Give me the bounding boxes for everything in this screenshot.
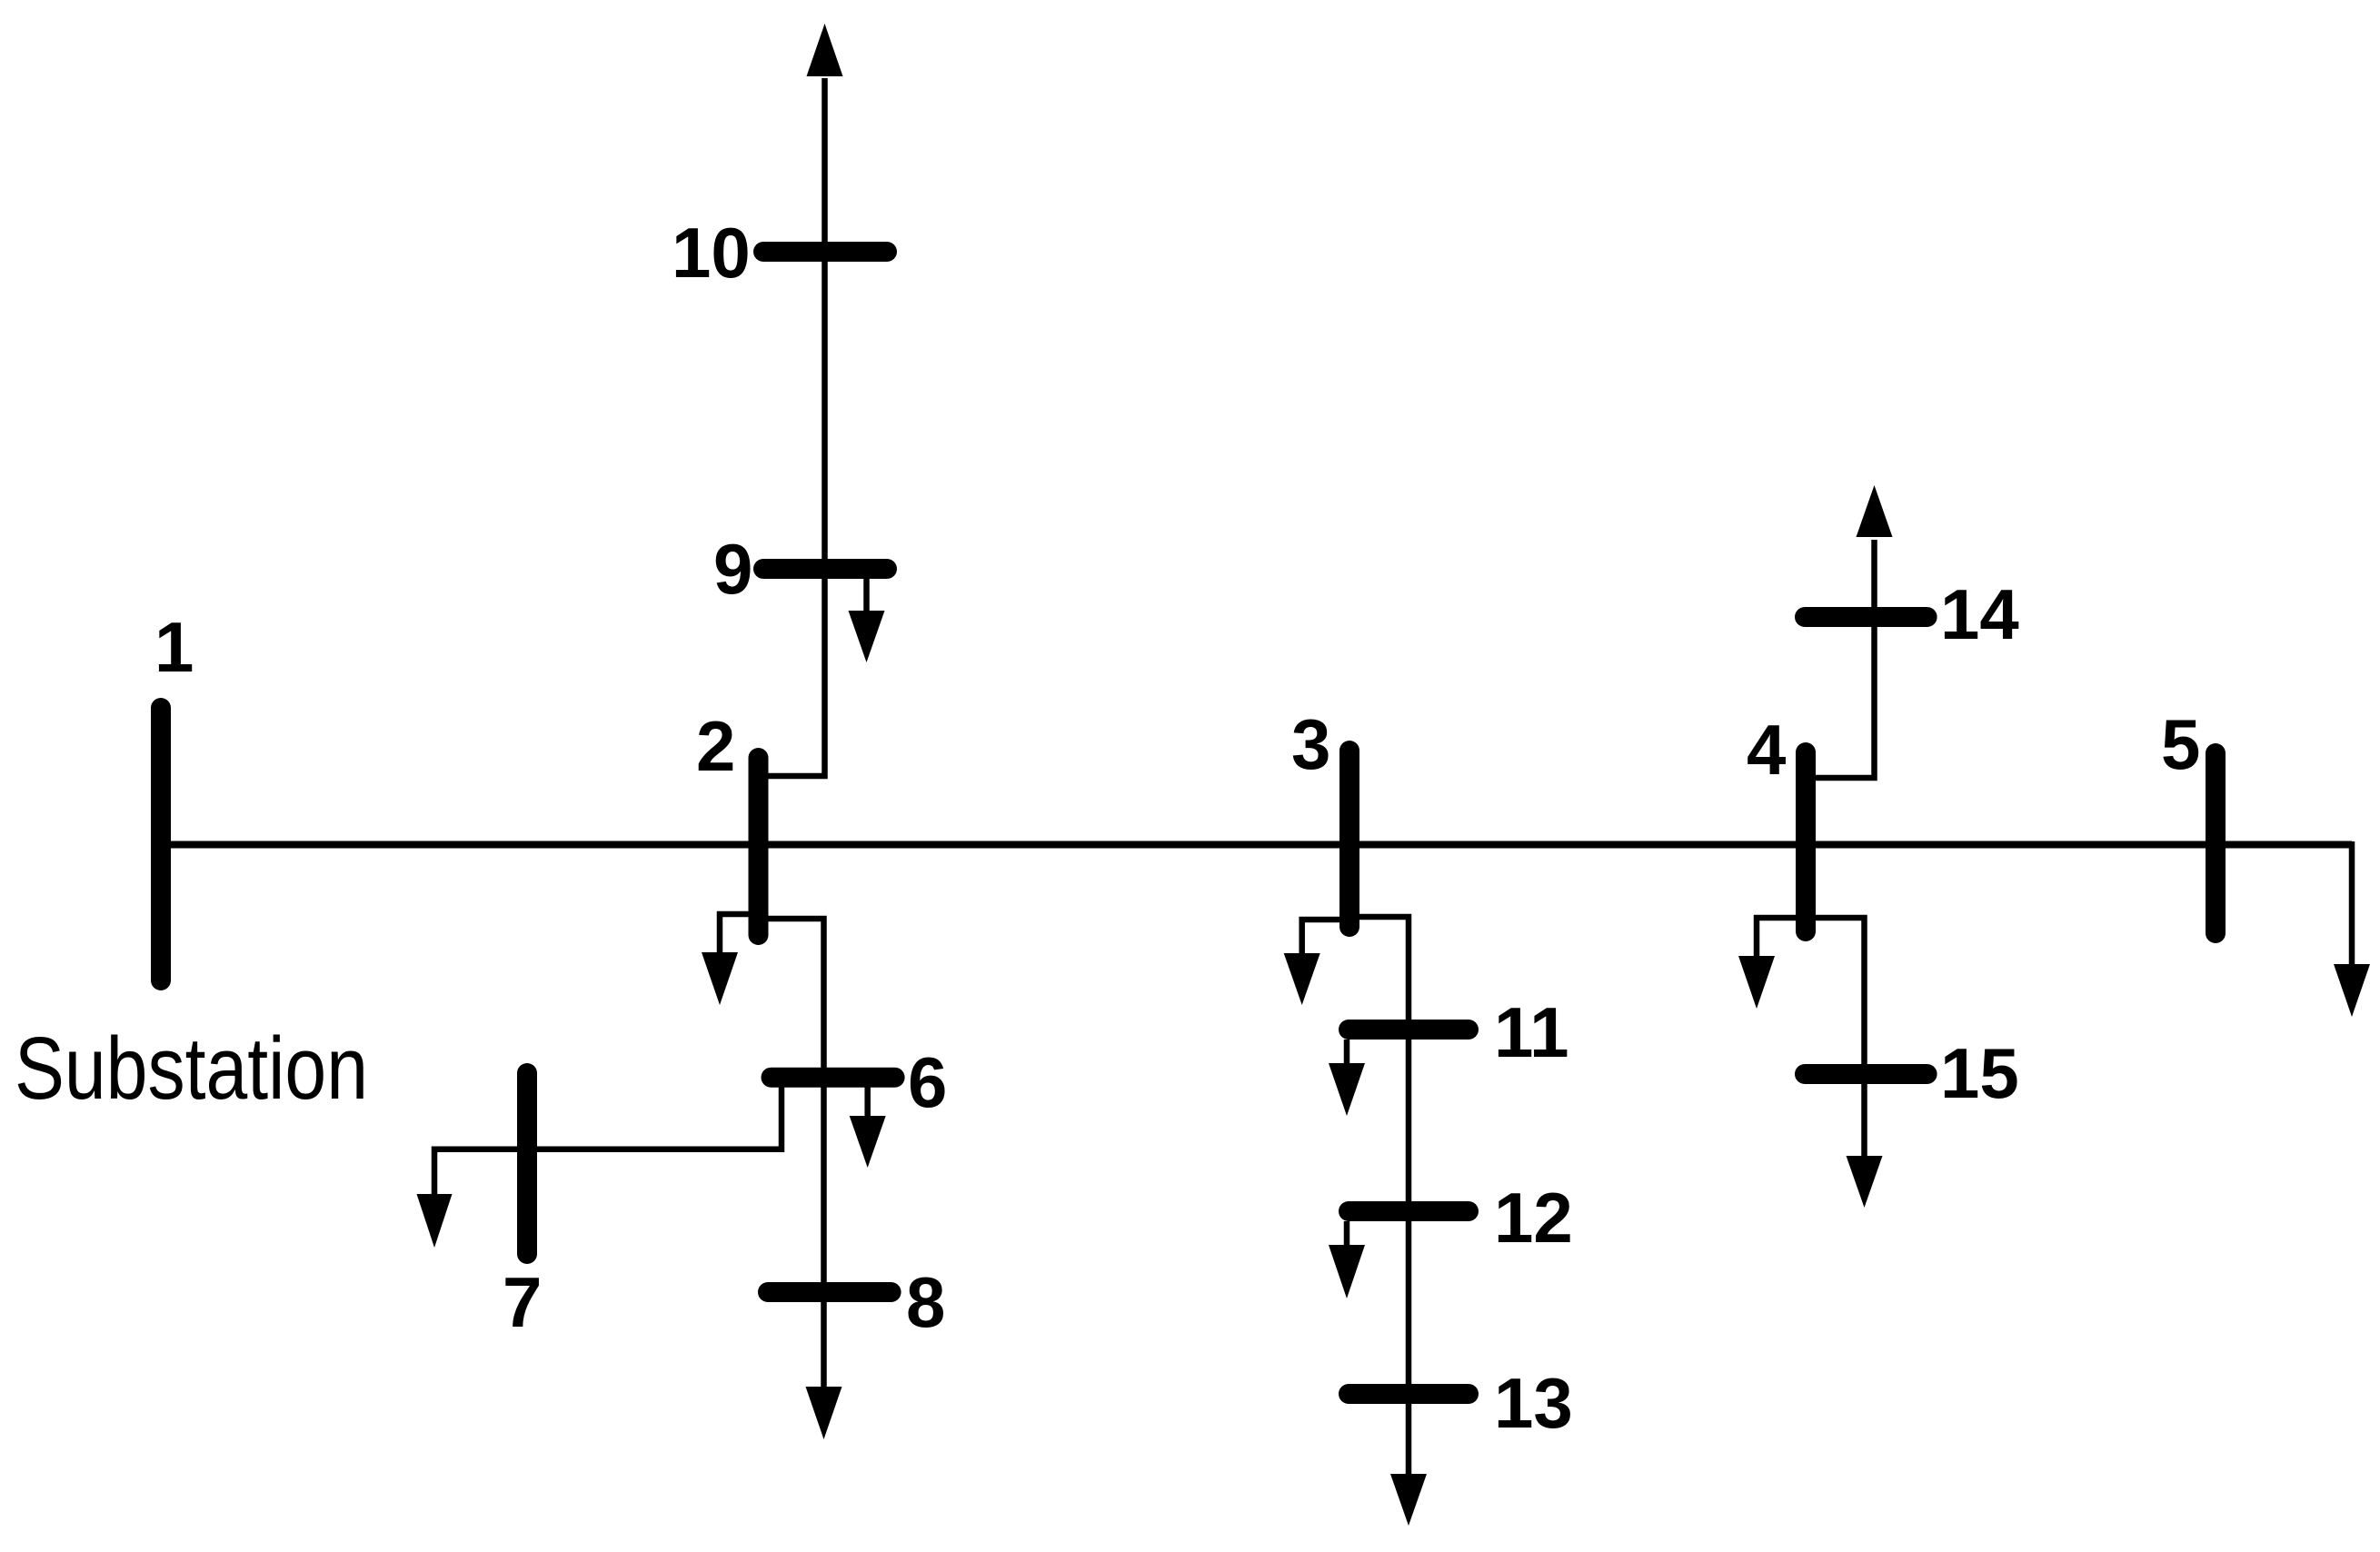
load arrow bus 11 [1329, 1063, 1365, 1116]
wire bus 4 down to bus 15 and load [1816, 918, 1865, 1159]
bus 3 [1339, 751, 1359, 927]
bus 1 (Substation) [151, 708, 171, 980]
svg-text:Substation: Substation [15, 1019, 368, 1118]
bus 15 [1805, 1064, 1927, 1084]
bus 12 [1349, 1201, 1469, 1221]
bus 11 [1349, 1020, 1469, 1040]
load arrow bus 3 [1284, 953, 1320, 1005]
load arrow below bus 13 [1390, 1474, 1427, 1526]
bus 14 [1805, 607, 1927, 627]
load arrow below bus 15 [1847, 1156, 1883, 1208]
svg-text:15: 15 [1940, 1033, 2019, 1113]
bus 13 [1349, 1384, 1469, 1404]
generation arrow up at bus 14 [1857, 485, 1893, 537]
svg-text:7: 7 [503, 1262, 542, 1342]
wire bus 6 load stub [864, 1087, 871, 1119]
wire bus 3 left load [1302, 920, 1339, 956]
wire bus 9 load stub [863, 579, 870, 613]
wire main feeder from bus 1 to right end with corner down [171, 841, 2352, 849]
load arrow bus 12 [1329, 1245, 1365, 1298]
bus 6 [772, 1068, 895, 1088]
svg-text:1: 1 [154, 607, 194, 687]
svg-text:2: 2 [696, 706, 735, 786]
wire bus 2 down to bus 6 / bus 8 and bottom arrow [768, 919, 824, 1389]
wire feeder right elbow down [2349, 841, 2355, 966]
svg-text:5: 5 [2161, 704, 2200, 784]
wire bus 4 left load [1757, 918, 1796, 959]
svg-text:6: 6 [908, 1042, 947, 1122]
svg-text:10: 10 [672, 213, 751, 293]
wire bus 4 up to bus 14 and generation arrow [1816, 540, 1875, 778]
bus 4 [1796, 752, 1816, 931]
wire bus 2 up to bus 9 / bus 10 [768, 78, 825, 776]
svg-text:14: 14 [1940, 574, 2019, 654]
svg-text:9: 9 [713, 529, 752, 609]
wire bus 11 load stub [1344, 1040, 1350, 1066]
svg-text:11: 11 [1494, 992, 1568, 1072]
bus 10 [763, 242, 887, 262]
load arrow below bus 8 [806, 1387, 842, 1439]
load arrow bus 6 [850, 1116, 886, 1168]
svg-text:3: 3 [1291, 704, 1330, 784]
bus 5 [2206, 753, 2226, 933]
svg-text:13: 13 [1494, 1363, 1573, 1443]
load arrow on bus 7 feeder [417, 1194, 453, 1248]
bus 2 [749, 758, 769, 935]
wire bus 6 left to bus 7 and load [434, 1087, 782, 1197]
generation arrow up at top [807, 24, 843, 76]
wire bus 3 down through bus 11 12 13 to bottom arrow [1359, 917, 1409, 1477]
svg-text:4: 4 [1747, 710, 1786, 790]
bus 8 [768, 1282, 891, 1302]
svg-text:12: 12 [1494, 1178, 1573, 1258]
load arrow at feeder right end [2334, 964, 2370, 1017]
wire bus 2 left load [720, 914, 749, 955]
svg-text:8: 8 [906, 1262, 945, 1342]
load arrow bus 4 [1738, 956, 1775, 1009]
load arrow bus 9 [849, 611, 885, 662]
bus 7 [517, 1073, 537, 1254]
load arrow bus 2 [702, 952, 738, 1005]
bus 9 [763, 559, 887, 579]
wire bus 12 load stub [1344, 1221, 1350, 1248]
